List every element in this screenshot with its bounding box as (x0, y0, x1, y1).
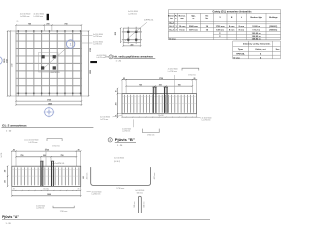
svg-text:500 mm: 500 mm (134, 201, 136, 208)
svg-text:138 mm: 138 mm (216, 30, 224, 32)
svg-text:200: 200 (130, 44, 133, 46)
svg-text:16x100: 16x100 (158, 115, 163, 117)
svg-text:2x D10: 2x D10 (1, 153, 3, 158)
svg-text:Σ: Σ (219, 33, 221, 35)
svg-text:1900: 1900 (47, 194, 51, 196)
svg-text:GL-2: GL-2 (169, 26, 175, 28)
svg-text:L=1730 mm: L=1730 mm (128, 13, 138, 15)
svg-text:GL-2 armavimas: GL-2 armavimas (2, 123, 27, 127)
svg-text:91.80 m: 91.80 m (252, 26, 260, 28)
svg-text:4x D10 S500: 4x D10 S500 (36, 205, 45, 207)
svg-text:4xHPM 24L: 4xHPM 24L (144, 19, 153, 21)
svg-text:1900: 1900 (90, 70, 92, 74)
svg-text:Iš viso: Iš viso (169, 37, 176, 40)
svg-text:85: 85 (13, 149, 15, 151)
svg-text:85: 85 (78, 149, 80, 151)
svg-text:Kiekis, vnt: Kiekis, vnt (255, 48, 265, 51)
svg-text:85: 85 (116, 90, 118, 92)
svg-text:L=1730 mm: L=1730 mm (36, 207, 45, 209)
svg-text:Σ: Σ (219, 36, 221, 38)
svg-text:L=1730 mm: L=1730 mm (168, 71, 178, 73)
svg-text:8 mm: 8 mm (179, 30, 185, 32)
svg-text:1730: 1730 (47, 100, 51, 102)
svg-text:8 mm: 8 mm (229, 30, 235, 32)
svg-text:4xHPM 24L: 4xHPM 24L (51, 72, 60, 74)
svg-text:750: 750 (20, 155, 23, 157)
svg-text:B: B (231, 17, 233, 19)
svg-text:1730 mm: 1730 mm (147, 135, 155, 137)
svg-text:L=1730 mm: L=1730 mm (122, 130, 131, 132)
svg-text:200: 200 (43, 155, 46, 157)
svg-text:2040 mm: 2040 mm (189, 25, 198, 28)
svg-text:Medžiaga: Medžiaga (269, 16, 278, 19)
svg-text:L=1730 mm: L=1730 mm (93, 36, 103, 38)
svg-text:85: 85 (194, 78, 196, 80)
svg-text:16x100: 16x100 (43, 188, 48, 190)
svg-text:Svo: Svo (276, 49, 280, 51)
svg-text:85: 85 (17, 21, 19, 23)
svg-text:4x D10 S500: 4x D10 S500 (114, 158, 124, 160)
svg-text:8 mm: 8 mm (239, 30, 245, 32)
svg-text:1730: 1730 (45, 149, 49, 151)
svg-text:85: 85 (78, 189, 80, 191)
svg-text:mm: mm (180, 18, 184, 20)
svg-text:L=1730 mm: L=1730 mm (29, 142, 39, 144)
svg-text:400: 400 (3, 170, 6, 173)
svg-text:8 mm: 8 mm (239, 26, 245, 28)
svg-text:400: 400 (3, 180, 6, 183)
svg-text:1 : 20: 1 : 20 (116, 60, 122, 62)
svg-text:85: 85 (13, 189, 15, 191)
svg-text:1730: 1730 (159, 78, 163, 80)
svg-text:L=1900 mm: L=1900 mm (20, 16, 30, 18)
svg-text:tas: tas (170, 17, 173, 20)
svg-text:kis: kis (206, 18, 209, 20)
svg-text:85: 85 (123, 78, 125, 80)
svg-text:400: 400 (115, 102, 118, 105)
svg-text:200: 200 (115, 32, 117, 35)
svg-text:750: 750 (64, 23, 67, 25)
svg-text:200: 200 (46, 23, 49, 25)
svg-text:(S500C): (S500C) (269, 26, 277, 28)
svg-text:(Iš GL2): (Iš GL2) (114, 161, 121, 163)
svg-text:109.00 m: 109.00 m (252, 33, 261, 35)
svg-text:4x D10 S500: 4x D10 S500 (122, 128, 131, 130)
svg-text:1730: 1730 (7, 59, 9, 63)
svg-text:Ink. varžtų papildomas armavim: Ink. varžtų papildomas armavimas (114, 54, 154, 58)
svg-text:8 mm: 8 mm (229, 26, 235, 28)
svg-text:Iš viso: Iš viso (233, 56, 240, 59)
svg-text:1 : 20: 1 : 20 (6, 130, 12, 132)
svg-text:Bendras ilgis: Bendras ilgis (250, 16, 262, 19)
svg-text:750: 750 (139, 84, 142, 86)
svg-text:400 mm: 400 mm (86, 172, 88, 179)
svg-text:10 mm: 10 mm (179, 26, 186, 28)
svg-text:17.12 m: 17.12 m (252, 30, 260, 32)
svg-text:200: 200 (159, 84, 162, 86)
svg-text:L=270 mm: L=270 mm (100, 119, 109, 121)
svg-text:400: 400 (82, 176, 85, 179)
svg-text:500 mm: 500 mm (144, 201, 146, 208)
svg-text:L=1730 mm: L=1730 mm (97, 57, 107, 59)
svg-text:400 mm: 400 mm (154, 172, 156, 179)
svg-text:1730 mm: 1730 mm (188, 74, 196, 76)
svg-text:L: L (241, 17, 243, 19)
svg-text:1070 mm: 1070 mm (189, 30, 198, 32)
svg-text:z.: z. (175, 18, 177, 20)
svg-text:GL-2: GL-2 (169, 30, 175, 32)
svg-text:1730 mm: 1730 mm (60, 211, 68, 213)
svg-text:1 : 20: 1 : 20 (6, 223, 12, 225)
svg-text:Inkarinių varžtų žiniaraštis: Inkarinių varžtų žiniaraštis (243, 43, 271, 46)
svg-text:L=1900 mm: L=1900 mm (34, 16, 44, 18)
svg-text:(S500C): (S500C) (269, 30, 277, 32)
svg-text:L=1730 mm: L=1730 mm (202, 120, 212, 122)
svg-text:1: 1 (69, 42, 72, 47)
svg-text:X: X (220, 17, 222, 19)
svg-text:750: 750 (178, 84, 181, 86)
svg-text:580 mm: 580 mm (137, 192, 144, 194)
svg-text:L=1730 mm: L=1730 mm (93, 44, 103, 46)
svg-text:HPM 24L: HPM 24L (236, 52, 245, 55)
svg-text:1 : 20: 1 : 20 (117, 145, 123, 147)
svg-text:2xHPM 24L: 2xHPM 24L (55, 163, 64, 165)
svg-text:L=2530 mm: L=2530 mm (92, 194, 102, 196)
svg-text:Pjūvis "B": Pjūvis "B" (115, 138, 136, 142)
svg-text:1730: 1730 (12, 64, 14, 68)
svg-text:1900: 1900 (48, 103, 52, 105)
svg-text:1730 mm: 1730 mm (116, 188, 124, 190)
svg-text:Gatvių (GL) armavimo žiniarašt: Gatvių (GL) armavimo žiniaraštis (213, 10, 253, 13)
svg-text:750: 750 (28, 23, 31, 25)
svg-text:750: 750 (61, 155, 64, 157)
svg-text:4: 4 (260, 52, 262, 55)
svg-text:Tipas: Tipas (238, 49, 244, 51)
svg-text:1730 mm: 1730 mm (216, 26, 225, 28)
svg-text:Pjūvis "A": Pjūvis "A" (2, 215, 20, 219)
svg-text:1730: 1730 (90, 48, 92, 52)
svg-text:m: m (193, 18, 195, 20)
svg-text:108.92 m: 108.92 m (252, 38, 261, 40)
svg-text:1730 mm: 1730 mm (52, 145, 60, 147)
